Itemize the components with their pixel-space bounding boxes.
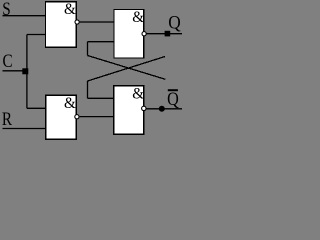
NAND gate U2 (bottom-left) body: [46, 95, 77, 139]
wire U1 output to U3 input 1: [80, 21, 114, 23]
wire C to U2 input 1: [27, 107, 46, 109]
NAND gate U4 (bottom-right) body: [114, 86, 144, 135]
svg-text:S: S: [2, 0, 10, 19]
NAND gate U4 output bubble: [142, 106, 146, 110]
wire cross-couple left vertical lower: [87, 81, 89, 98]
label Qbar overbar: [168, 89, 178, 91]
NAND gate U1 output bubble: [75, 20, 79, 24]
NAND gate U1 (top-left) body: [46, 2, 77, 48]
node Qbar junction dot: [159, 106, 165, 112]
svg-text:&: &: [64, 95, 76, 112]
node Q junction dot: [165, 31, 171, 37]
wire R input: [3, 128, 46, 130]
svg-text:Q: Q: [168, 12, 180, 33]
wire cross-couple diagonal from U4 side up to Q side: [88, 57, 166, 82]
svg-text:&: &: [132, 85, 144, 102]
svg-text:&: &: [132, 9, 144, 26]
NAND gate U3 output bubble: [142, 32, 146, 36]
node C junction dot: [22, 68, 28, 74]
wire C input: [3, 70, 27, 72]
wire C vertical bus: [26, 35, 28, 109]
NAND gate U3 (top-right) body: [114, 10, 144, 59]
wire Qbar output: [146, 108, 182, 110]
wire S input: [3, 15, 46, 17]
wire U4 input 1 horizontal: [88, 97, 114, 99]
wire U3 input 2 horizontal: [88, 41, 115, 43]
wire cross-couple left vertical upper: [87, 42, 89, 56]
wire Q output: [146, 33, 182, 35]
wire C to U1 input 2: [27, 34, 46, 36]
svg-text:&: &: [64, 1, 76, 18]
svg-text:R: R: [2, 109, 13, 130]
svg-text:C: C: [3, 51, 13, 72]
wire U2 output to U4 input 2: [80, 116, 114, 118]
NAND gate U2 output bubble: [75, 115, 79, 119]
wire cross-couple diagonal from U3 side down to Qbar side: [88, 56, 166, 80]
